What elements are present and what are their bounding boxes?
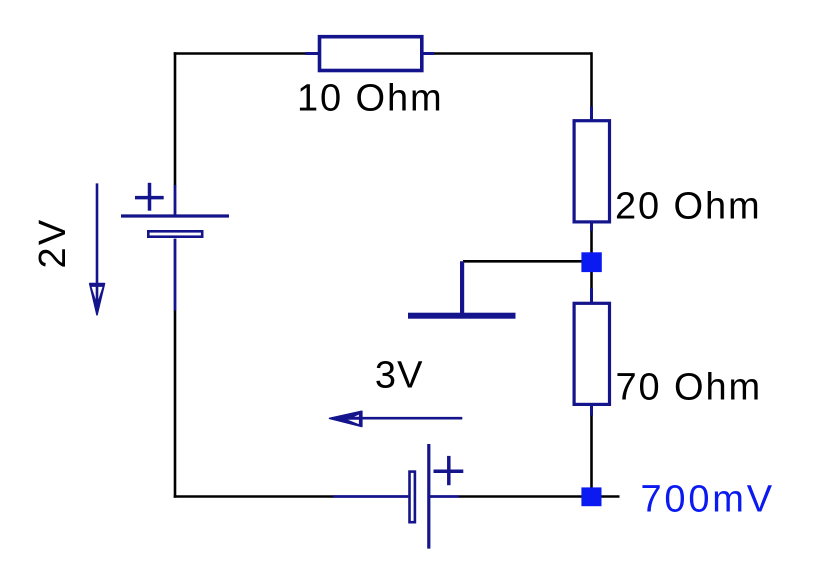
svg-text:2V: 2V	[32, 218, 74, 269]
wire W2a left rail upper	[174, 52, 177, 185]
node N2 junction	[581, 487, 601, 506]
wire W8 ground to node N1	[463, 260, 592, 263]
arrow 2V direction	[90, 183, 105, 314]
svg-text:700mV: 700mV	[641, 479, 775, 521]
resistor R2 (20 Ohm)	[574, 107, 609, 232]
svg-text:3V: 3V	[375, 355, 424, 397]
wire W5 R2 bottom to node N1	[590, 230, 593, 262]
svg-text:10 Ohm: 10 Ohm	[297, 77, 444, 119]
resistor R1 (10 Ohm)	[305, 37, 434, 71]
svg-text:70 Ohm: 70 Ohm	[616, 367, 763, 409]
ground GND	[408, 261, 516, 318]
wire W3b bottom rail right	[459, 495, 592, 498]
wire W1b top rail right of R1	[434, 52, 592, 55]
battery V2 (3V)	[333, 444, 463, 549]
wire W9 node N2 stub to 700mV label	[601, 495, 620, 498]
node N1 junction	[581, 252, 601, 272]
wire W4 right rail upper	[590, 52, 593, 107]
svg-text:20 Ohm: 20 Ohm	[615, 185, 762, 227]
resistor R3 (70 Ohm)	[574, 288, 609, 416]
wire W6 node N1 to R3 top	[590, 262, 593, 289]
wire W3a bottom rail left	[174, 495, 334, 498]
wire W1 top rail	[174, 52, 306, 55]
wire W7 R3 bottom to node N2	[590, 415, 593, 497]
wire W2b left rail lower	[174, 310, 177, 498]
battery V1 (2V)	[121, 183, 229, 311]
arrow 3V direction	[330, 411, 463, 426]
